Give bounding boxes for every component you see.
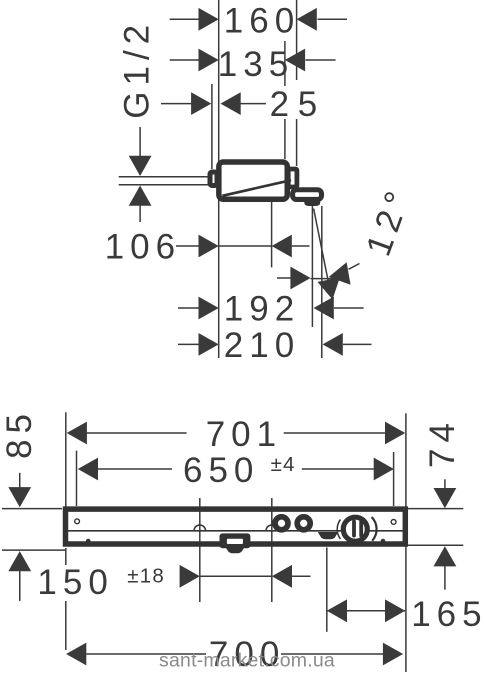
svg-text:2: 2: [270, 85, 295, 124]
svg-text:sant-market.com.ua: sant-market.com.ua: [159, 650, 335, 672]
svg-text:160: 160: [224, 2, 300, 41]
svg-text:135: 135: [218, 45, 294, 84]
svg-text:150: 150: [37, 563, 113, 602]
svg-text:85: 85: [0, 408, 39, 459]
svg-text:165: 165: [411, 595, 486, 634]
svg-text:650: 650: [183, 451, 259, 490]
svg-text:5: 5: [298, 85, 323, 124]
svg-text:192: 192: [224, 290, 300, 329]
svg-text:G1/2: G1/2: [118, 19, 157, 119]
svg-text:±18: ±18: [127, 564, 165, 587]
svg-text:106: 106: [105, 227, 181, 266]
svg-text:210: 210: [224, 326, 300, 365]
svg-text:±4: ±4: [271, 453, 296, 476]
svg-text:701: 701: [206, 415, 282, 454]
svg-text:74: 74: [423, 417, 462, 468]
